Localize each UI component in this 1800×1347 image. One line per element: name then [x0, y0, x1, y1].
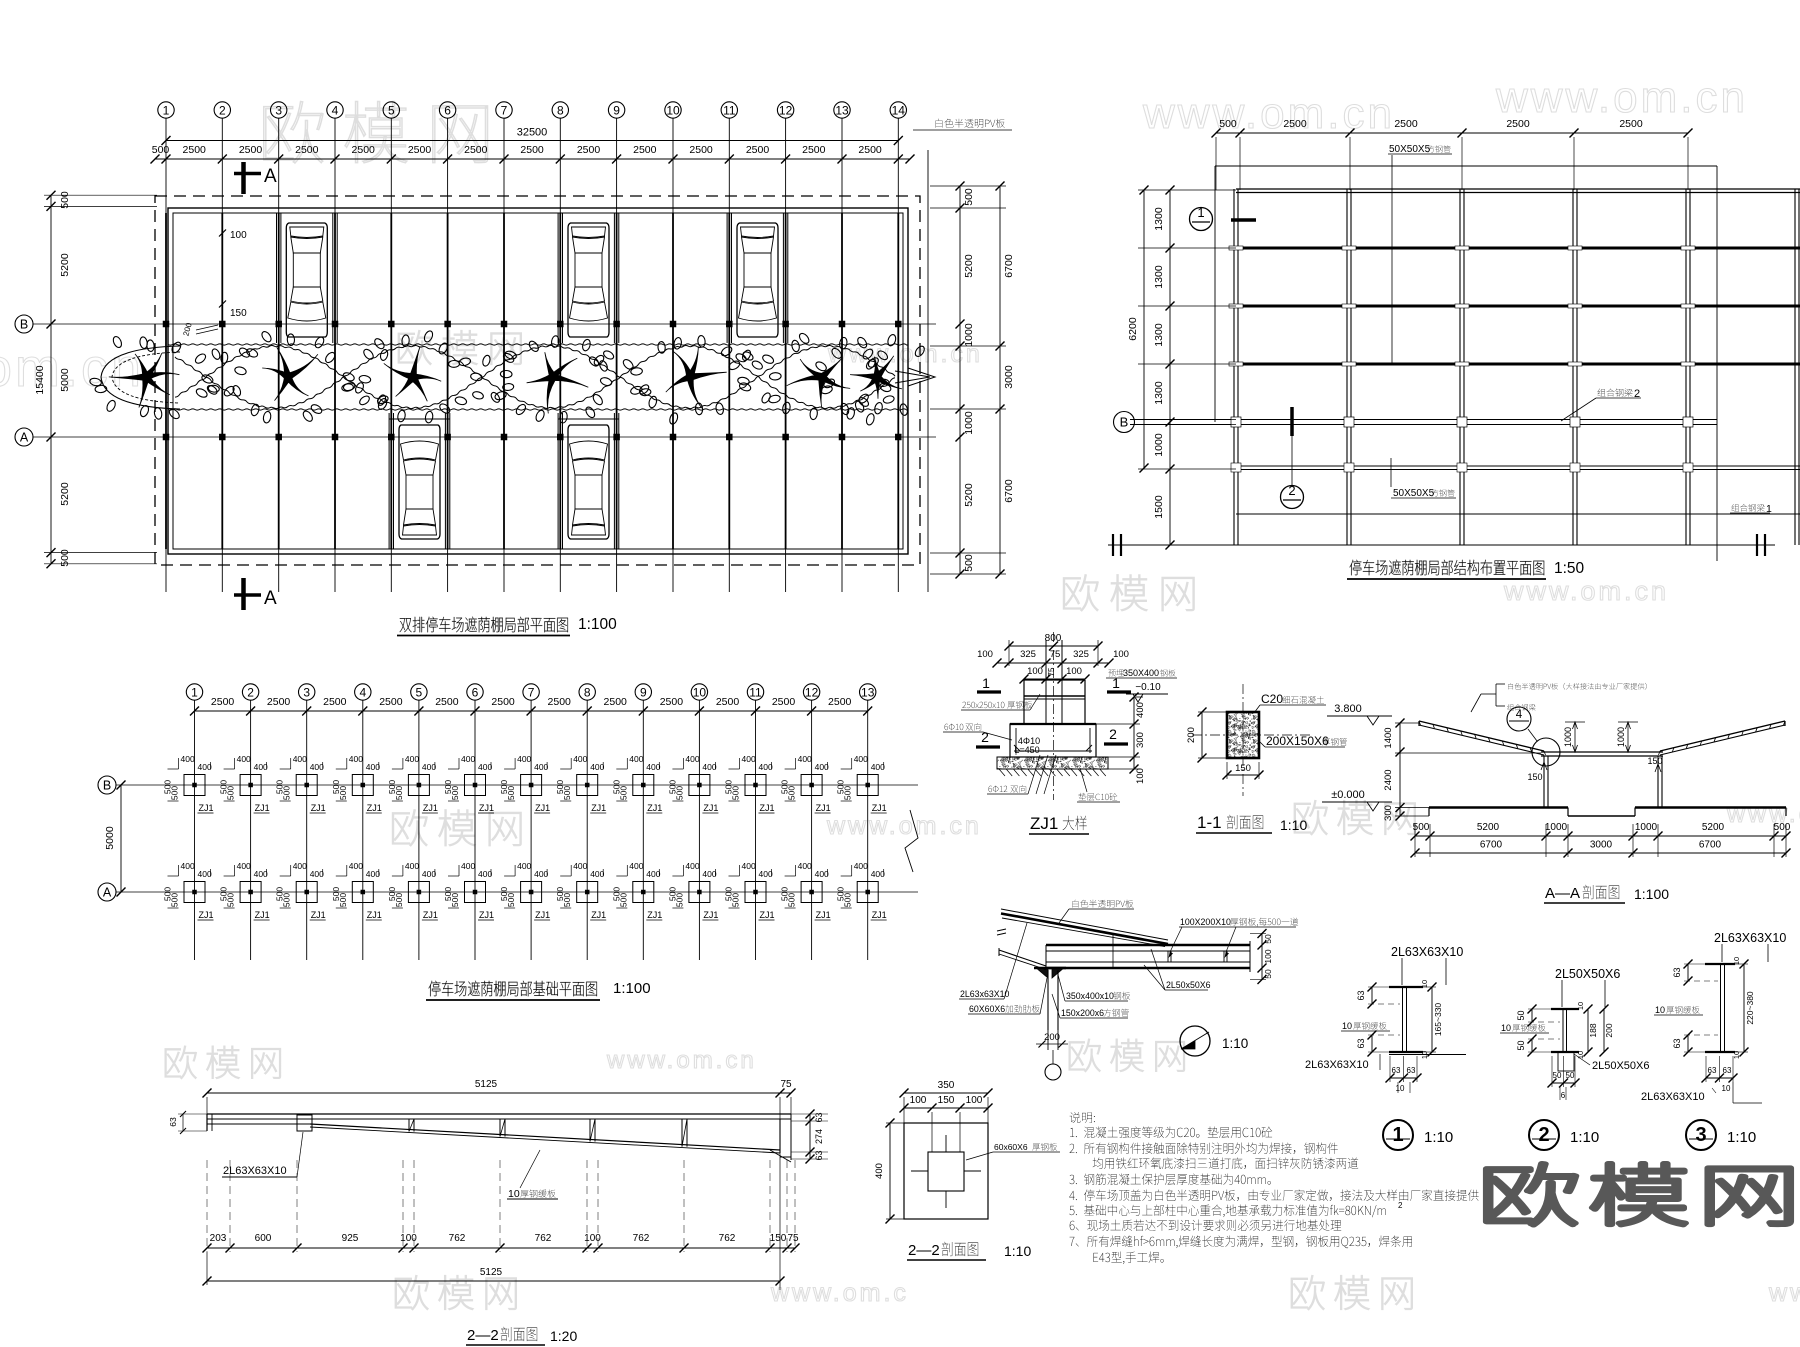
svg-text:1: 1 — [191, 685, 198, 699]
svg-text:1:100: 1:100 — [613, 980, 651, 997]
svg-text:1: 1 — [1197, 205, 1204, 220]
svg-text:3.800: 3.800 — [1334, 703, 1362, 715]
svg-text:2L50x50X6: 2L50x50X6 — [1166, 980, 1211, 990]
svg-text:3: 3 — [275, 103, 282, 117]
svg-text:1300: 1300 — [1153, 207, 1165, 231]
svg-text:500: 500 — [1774, 822, 1791, 833]
svg-text:60x60X6: 60x60X6 — [994, 1142, 1030, 1152]
svg-text:400: 400 — [1135, 702, 1146, 718]
svg-text:400: 400 — [874, 1163, 885, 1179]
svg-text:500: 500 — [963, 188, 975, 206]
svg-text:ZJ1: ZJ1 — [479, 803, 494, 813]
svg-text:1300: 1300 — [1153, 265, 1165, 289]
svg-text:ZJ1: ZJ1 — [591, 803, 606, 813]
svg-text:2500: 2500 — [408, 144, 432, 156]
svg-text:12: 12 — [805, 685, 819, 699]
svg-text:1: 1 — [163, 103, 170, 117]
svg-text:400: 400 — [685, 754, 699, 764]
svg-text:800: 800 — [1045, 633, 1062, 644]
svg-text:2500: 2500 — [1394, 118, 1418, 130]
svg-text:2500: 2500 — [491, 696, 515, 708]
svg-text:400: 400 — [534, 869, 548, 879]
svg-text:400: 400 — [815, 762, 829, 772]
svg-text:ZJ1: ZJ1 — [199, 910, 214, 920]
svg-text:6200: 6200 — [1127, 317, 1139, 341]
svg-text:2500: 2500 — [464, 144, 488, 156]
svg-text:500: 500 — [282, 893, 292, 907]
svg-text:B: B — [103, 779, 111, 793]
svg-text:6700: 6700 — [1480, 840, 1503, 851]
svg-text:75: 75 — [1050, 649, 1061, 660]
svg-text:3000: 3000 — [1590, 840, 1613, 851]
svg-text:5125: 5125 — [475, 1079, 498, 1090]
svg-text:100: 100 — [230, 230, 247, 241]
svg-text:2500: 2500 — [689, 144, 713, 156]
svg-text:400: 400 — [871, 762, 885, 772]
svg-text:2500: 2500 — [716, 696, 740, 708]
svg-text:400: 400 — [422, 869, 436, 879]
svg-text:63: 63 — [1723, 1066, 1732, 1075]
svg-text:L=450: L=450 — [1014, 745, 1039, 755]
svg-text:ZJ1: ZJ1 — [199, 803, 214, 813]
svg-text:6: 6 — [1561, 1091, 1566, 1100]
svg-text:500: 500 — [170, 786, 180, 800]
svg-text:1000: 1000 — [1616, 727, 1626, 747]
svg-text:400: 400 — [702, 762, 716, 772]
svg-text:2500: 2500 — [323, 696, 347, 708]
svg-text:762: 762 — [535, 1233, 552, 1244]
svg-text:500: 500 — [394, 893, 404, 907]
svg-text:10: 10 — [693, 685, 707, 699]
svg-text:11: 11 — [723, 103, 736, 117]
svg-text:150: 150 — [770, 1233, 787, 1244]
svg-text:2500: 2500 — [295, 144, 319, 156]
svg-text:400: 400 — [254, 762, 268, 772]
svg-text:500: 500 — [562, 893, 572, 907]
svg-text:400: 400 — [573, 754, 587, 764]
svg-text:150x200x6: 150x200x6 — [1061, 1008, 1104, 1018]
svg-text:150: 150 — [1647, 756, 1662, 766]
svg-text:400: 400 — [590, 869, 604, 879]
svg-text:188: 188 — [1588, 1023, 1598, 1037]
svg-text:50X50X5: 50X50X5 — [1393, 488, 1435, 499]
svg-text:500: 500 — [394, 786, 404, 800]
svg-text:2500: 2500 — [211, 696, 235, 708]
svg-text:400: 400 — [366, 762, 380, 772]
svg-text:400: 400 — [478, 762, 492, 772]
svg-text:400: 400 — [854, 861, 868, 871]
svg-text:600: 600 — [255, 1233, 272, 1244]
svg-text:500: 500 — [506, 893, 516, 907]
svg-text:2500: 2500 — [802, 144, 826, 156]
svg-text:500: 500 — [1219, 118, 1237, 130]
svg-text:100: 100 — [1263, 949, 1273, 963]
svg-text:400: 400 — [798, 861, 812, 871]
svg-text:500: 500 — [618, 786, 628, 800]
svg-text:100: 100 — [910, 1095, 927, 1106]
svg-text:500: 500 — [963, 554, 975, 572]
svg-text:200: 200 — [1044, 1032, 1060, 1043]
svg-text:500: 500 — [282, 786, 292, 800]
svg-text:500: 500 — [674, 893, 684, 907]
svg-text:274: 274 — [814, 1129, 824, 1144]
svg-text:50: 50 — [1566, 1071, 1575, 1080]
svg-text:ZJ1: ZJ1 — [423, 803, 438, 813]
svg-text:10: 10 — [1722, 1084, 1731, 1093]
svg-text:15400: 15400 — [34, 365, 46, 394]
svg-text:63: 63 — [1392, 1066, 1401, 1075]
svg-text:www.om.c: www.om.c — [770, 1279, 909, 1307]
svg-text:2500: 2500 — [746, 144, 770, 156]
svg-text:ZJ1: ZJ1 — [703, 910, 718, 920]
svg-text:ZJ1: ZJ1 — [816, 803, 831, 813]
svg-text:400: 400 — [461, 861, 475, 871]
svg-text:5: 5 — [416, 685, 423, 699]
svg-text:400: 400 — [181, 754, 195, 764]
svg-text:2500: 2500 — [772, 696, 796, 708]
svg-text:ZJ1: ZJ1 — [591, 910, 606, 920]
svg-text:5200: 5200 — [963, 483, 975, 507]
svg-text:400: 400 — [685, 861, 699, 871]
svg-text:1000: 1000 — [963, 323, 975, 347]
svg-text:100: 100 — [1113, 649, 1129, 660]
svg-text:400: 400 — [181, 861, 195, 871]
svg-text:75: 75 — [787, 1233, 799, 1244]
svg-text:400: 400 — [422, 762, 436, 772]
svg-text:ZJ1: ZJ1 — [872, 910, 887, 920]
svg-text:63: 63 — [1708, 1066, 1717, 1075]
svg-text:ww: ww — [1768, 1279, 1800, 1307]
svg-text:400: 400 — [742, 861, 756, 871]
svg-text:9: 9 — [640, 685, 647, 699]
svg-text:www.om.cn: www.om.cn — [1503, 576, 1669, 606]
svg-text:A—A: A—A — [1545, 885, 1580, 902]
svg-text:ZJ1: ZJ1 — [1030, 814, 1058, 833]
svg-text:1000: 1000 — [963, 411, 975, 435]
svg-text:500: 500 — [731, 893, 741, 907]
svg-text:2500: 2500 — [183, 144, 207, 156]
svg-text:1:10: 1:10 — [1570, 1129, 1599, 1146]
svg-text:100: 100 — [584, 1233, 601, 1244]
svg-text:5200: 5200 — [963, 254, 975, 278]
svg-text:500: 500 — [226, 786, 236, 800]
svg-text:2: 2 — [1109, 726, 1117, 742]
svg-text:63: 63 — [1356, 1038, 1366, 1048]
svg-text:ZJ1: ZJ1 — [423, 910, 438, 920]
svg-text:10: 10 — [666, 103, 680, 117]
svg-text:A: A — [103, 886, 112, 900]
svg-text:2—2: 2—2 — [908, 1242, 940, 1259]
svg-text:ZJ1: ZJ1 — [311, 910, 326, 920]
svg-text:500: 500 — [450, 893, 460, 907]
svg-text:3: 3 — [1695, 1124, 1706, 1146]
svg-text:2L50X50X6: 2L50X50X6 — [1555, 967, 1620, 981]
svg-text:2L63X63X10: 2L63X63X10 — [1641, 1091, 1705, 1103]
svg-text:1500: 1500 — [1153, 495, 1165, 519]
svg-text:50: 50 — [1263, 934, 1273, 944]
svg-text:400: 400 — [798, 754, 812, 764]
svg-text:200: 200 — [1186, 727, 1197, 743]
svg-text:762: 762 — [449, 1233, 466, 1244]
svg-text:6700: 6700 — [1003, 254, 1015, 278]
svg-text:10: 10 — [1655, 1005, 1665, 1015]
svg-text:203: 203 — [210, 1233, 227, 1244]
svg-text:350X400: 350X400 — [1123, 668, 1159, 678]
svg-text:1:10: 1:10 — [1222, 1036, 1248, 1051]
svg-text:400: 400 — [854, 754, 868, 764]
svg-text:2: 2 — [1538, 1124, 1549, 1146]
svg-text:2500: 2500 — [435, 696, 459, 708]
svg-text:500: 500 — [731, 786, 741, 800]
svg-text:2L63x63X10: 2L63x63X10 — [960, 989, 1010, 999]
svg-text:400: 400 — [646, 869, 660, 879]
svg-text:400: 400 — [310, 762, 324, 772]
svg-text:400: 400 — [759, 762, 773, 772]
svg-text:762: 762 — [719, 1233, 736, 1244]
svg-text:10: 10 — [1576, 1002, 1585, 1010]
svg-text:150: 150 — [1235, 763, 1251, 774]
svg-text:2500: 2500 — [352, 144, 376, 156]
svg-text:400: 400 — [517, 754, 531, 764]
svg-text:ZJ1: ZJ1 — [760, 803, 775, 813]
svg-text:63: 63 — [168, 1117, 178, 1127]
svg-text:10: 10 — [1342, 1021, 1352, 1031]
svg-text:400: 400 — [646, 762, 660, 772]
svg-text:400: 400 — [349, 861, 363, 871]
svg-text:400: 400 — [702, 869, 716, 879]
svg-text:www.om.cn: www.om.cn — [826, 812, 982, 840]
svg-text:2500: 2500 — [577, 144, 601, 156]
svg-text:2400: 2400 — [1383, 769, 1394, 790]
svg-text:1000: 1000 — [1153, 433, 1165, 457]
svg-text:63: 63 — [1356, 990, 1366, 1000]
svg-text:B: B — [1120, 415, 1129, 430]
svg-text:1:50: 1:50 — [1554, 560, 1585, 577]
svg-text:100: 100 — [1066, 666, 1082, 677]
svg-text:400: 400 — [517, 861, 531, 871]
svg-text:350x400x10: 350x400x10 — [1066, 991, 1114, 1001]
svg-text:500: 500 — [450, 786, 460, 800]
svg-text:1:10: 1:10 — [1424, 1129, 1453, 1146]
svg-text:2500: 2500 — [660, 696, 684, 708]
svg-text:ZJ1: ZJ1 — [255, 803, 270, 813]
svg-text:1: 1 — [1112, 675, 1120, 691]
svg-text:5200: 5200 — [1702, 822, 1725, 833]
svg-text:5125: 5125 — [480, 1267, 503, 1278]
svg-text:500: 500 — [338, 786, 348, 800]
svg-text:500: 500 — [787, 786, 797, 800]
svg-text:10: 10 — [1576, 1051, 1585, 1059]
svg-text:500: 500 — [843, 893, 853, 907]
svg-text:400: 400 — [254, 869, 268, 879]
svg-text:5000: 5000 — [104, 826, 116, 850]
svg-text:4: 4 — [332, 103, 339, 117]
svg-text:ZJ1: ZJ1 — [647, 910, 662, 920]
svg-text:200: 200 — [1604, 1023, 1614, 1037]
svg-text:10: 10 — [1396, 1084, 1405, 1093]
svg-text:2500: 2500 — [604, 696, 628, 708]
svg-text:2500: 2500 — [1283, 118, 1307, 130]
svg-text:1:100: 1:100 — [1634, 886, 1669, 902]
svg-text:om.cn: om.cn — [0, 338, 144, 398]
svg-text:1300: 1300 — [1153, 381, 1165, 405]
svg-text:2: 2 — [247, 685, 254, 699]
svg-text:1:10: 1:10 — [1727, 1129, 1756, 1146]
svg-text:7: 7 — [501, 103, 508, 117]
svg-text:1-1: 1-1 — [1197, 813, 1222, 832]
svg-text:63: 63 — [1672, 967, 1682, 977]
svg-text:2500: 2500 — [520, 144, 544, 156]
svg-text:150: 150 — [938, 1095, 955, 1106]
svg-text:1300: 1300 — [1153, 323, 1165, 347]
svg-text:www.om.cn: www.om.cn — [1495, 73, 1748, 122]
svg-text:400: 400 — [815, 869, 829, 879]
svg-text:50: 50 — [1516, 1010, 1526, 1020]
svg-text:300: 300 — [1135, 732, 1146, 748]
svg-text:500: 500 — [152, 144, 170, 156]
svg-text:2L63X63X10: 2L63X63X10 — [1391, 945, 1463, 959]
svg-text:1: 1 — [1392, 1124, 1403, 1146]
svg-text:500: 500 — [506, 786, 516, 800]
svg-text:14: 14 — [892, 103, 906, 117]
svg-text:165~330: 165~330 — [1433, 1003, 1443, 1037]
svg-text:−0.10: −0.10 — [1135, 682, 1161, 693]
svg-text:325: 325 — [1020, 649, 1036, 660]
svg-text:50: 50 — [1553, 1071, 1562, 1080]
svg-text:400: 400 — [293, 861, 307, 871]
svg-text:6700: 6700 — [1699, 840, 1722, 851]
svg-text:762: 762 — [633, 1233, 650, 1244]
svg-text:5000: 5000 — [59, 368, 71, 392]
svg-text:8: 8 — [584, 685, 591, 699]
svg-text:4: 4 — [359, 685, 366, 699]
svg-text:1:10: 1:10 — [1004, 1243, 1031, 1259]
svg-text:A: A — [20, 431, 29, 445]
svg-text:500: 500 — [170, 893, 180, 907]
svg-text:ZJ1: ZJ1 — [760, 910, 775, 920]
svg-text:325: 325 — [1073, 649, 1089, 660]
svg-text:150: 150 — [1527, 772, 1542, 782]
svg-text:1000: 1000 — [1545, 822, 1568, 833]
svg-text:1400: 1400 — [1383, 727, 1394, 748]
svg-text:B: B — [20, 318, 28, 332]
svg-text:1:10: 1:10 — [1280, 817, 1307, 833]
svg-text:400: 400 — [573, 861, 587, 871]
svg-text:13: 13 — [861, 685, 875, 699]
svg-text:ZJ1: ZJ1 — [367, 910, 382, 920]
svg-text:A: A — [264, 588, 277, 609]
svg-text:400: 400 — [198, 762, 212, 772]
svg-text:2500: 2500 — [1619, 118, 1643, 130]
svg-text:220~380: 220~380 — [1745, 991, 1755, 1025]
svg-text:1: 1 — [982, 675, 990, 691]
svg-text:3: 3 — [303, 685, 310, 699]
svg-text:2500: 2500 — [267, 696, 291, 708]
svg-text:1:100: 1:100 — [578, 616, 617, 633]
svg-text:5200: 5200 — [59, 482, 71, 506]
svg-text:ZJ1: ZJ1 — [311, 803, 326, 813]
svg-text:400: 400 — [534, 762, 548, 772]
svg-text:2L50X50X6: 2L50X50X6 — [1592, 1060, 1650, 1072]
svg-text:ZJ1: ZJ1 — [479, 910, 494, 920]
svg-text:400: 400 — [461, 754, 475, 764]
svg-text:ZJ1: ZJ1 — [703, 803, 718, 813]
svg-text:2L63X63X10: 2L63X63X10 — [1305, 1059, 1369, 1071]
svg-text:2: 2 — [981, 729, 989, 745]
svg-text:2500: 2500 — [828, 696, 852, 708]
svg-text:300: 300 — [1383, 805, 1394, 821]
svg-text:400: 400 — [405, 754, 419, 764]
svg-text:C20: C20 — [1261, 692, 1283, 706]
svg-text:2500: 2500 — [548, 696, 572, 708]
svg-text:13: 13 — [835, 103, 849, 117]
svg-text:32500: 32500 — [517, 127, 548, 139]
svg-text:400: 400 — [237, 861, 251, 871]
svg-text:10: 10 — [1501, 1023, 1511, 1033]
svg-text:2500: 2500 — [858, 144, 882, 156]
svg-text:500: 500 — [338, 893, 348, 907]
svg-text:2: 2 — [1398, 1201, 1403, 1210]
svg-text:2500: 2500 — [239, 144, 263, 156]
svg-text:400: 400 — [405, 861, 419, 871]
svg-text:7: 7 — [528, 685, 535, 699]
svg-text:400: 400 — [237, 754, 251, 764]
svg-text:100: 100 — [966, 1095, 983, 1106]
svg-text:75: 75 — [780, 1079, 792, 1090]
svg-text:925: 925 — [342, 1233, 359, 1244]
svg-text:500: 500 — [562, 786, 572, 800]
svg-text:500: 500 — [618, 893, 628, 907]
svg-text:ZJ1: ZJ1 — [647, 803, 662, 813]
svg-text:50: 50 — [1263, 969, 1273, 979]
svg-text:11: 11 — [749, 685, 762, 699]
svg-text:5: 5 — [388, 103, 395, 117]
svg-text:400: 400 — [198, 869, 212, 879]
svg-text:5200: 5200 — [1477, 822, 1500, 833]
svg-text:75: 75 — [1047, 667, 1056, 676]
svg-text:2L63X63X10: 2L63X63X10 — [1714, 931, 1786, 945]
svg-text:400: 400 — [366, 869, 380, 879]
svg-text:400: 400 — [478, 869, 492, 879]
svg-text:2500: 2500 — [379, 696, 403, 708]
svg-text:400: 400 — [629, 754, 643, 764]
svg-text:2500: 2500 — [633, 144, 657, 156]
svg-text:200X150X6: 200X150X6 — [1266, 734, 1329, 748]
svg-text:ZJ1: ZJ1 — [872, 803, 887, 813]
svg-text:500: 500 — [674, 786, 684, 800]
svg-text:400: 400 — [759, 869, 773, 879]
svg-text:100: 100 — [400, 1233, 417, 1244]
svg-text:100: 100 — [1135, 768, 1146, 784]
svg-text:50: 50 — [1516, 1040, 1526, 1050]
svg-text:2: 2 — [1288, 483, 1295, 498]
svg-text:±0.000: ±0.000 — [1331, 789, 1365, 801]
svg-text:60X60X6: 60X60X6 — [969, 1004, 1008, 1014]
svg-text:400: 400 — [742, 754, 756, 764]
svg-text:500: 500 — [843, 786, 853, 800]
svg-text:100: 100 — [977, 649, 993, 660]
svg-text:500: 500 — [787, 893, 797, 907]
svg-text:A: A — [264, 166, 277, 187]
svg-text:12: 12 — [779, 103, 793, 117]
svg-text:www.om.cn: www.om.cn — [1142, 89, 1395, 138]
svg-text:400: 400 — [349, 754, 363, 764]
svg-text:2500: 2500 — [1506, 118, 1530, 130]
svg-text:6700: 6700 — [1003, 479, 1015, 503]
svg-text:www.om.cn: www.om.cn — [606, 1047, 757, 1074]
svg-text:9: 9 — [613, 103, 620, 117]
svg-text:400: 400 — [293, 754, 307, 764]
